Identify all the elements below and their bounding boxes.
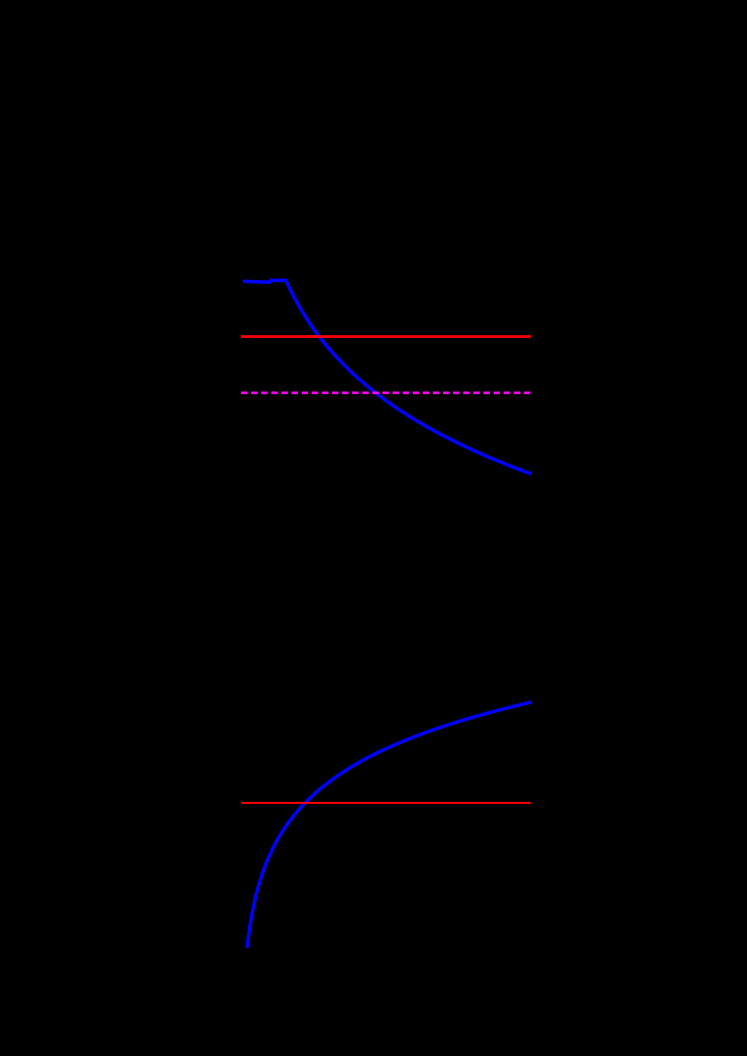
bottom plot: red threshold line	[241, 802, 531, 804]
bottom plot: blue rising curve	[247, 702, 532, 948]
top plot: red threshold line	[241, 335, 531, 338]
top plot: blue temperature curve	[243, 280, 531, 474]
top plot: magenta dashed threshold line	[241, 391, 530, 394]
